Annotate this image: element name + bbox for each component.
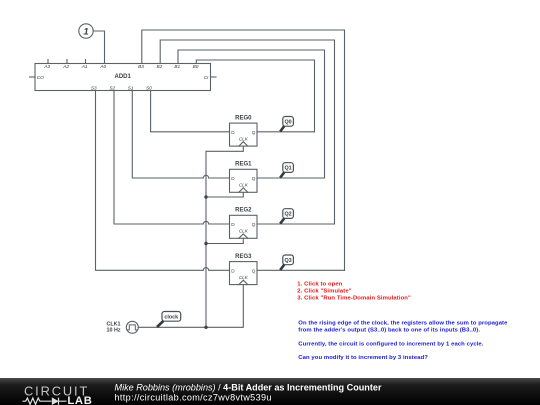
wire Q3 output [257,269,345,271]
svg-text:ADD1: ADD1 [115,74,132,80]
svg-text:10 Hz: 10 Hz [106,328,120,334]
flag Q1 [280,163,293,178]
wire clock vertical bus [205,151,207,327]
svg-text:REG2: REG2 [235,208,252,214]
wire S1 to REG1 D with hop [132,91,229,179]
svg-text:A2: A2 [62,64,69,69]
svg-text:Q2: Q2 [284,212,291,218]
svg-text:D: D [231,176,235,181]
svg-text:3. Click "Run Time-Domain Simu: 3. Click "Run Time-Domain Simulation" [297,295,411,301]
svg-text:Currently, the circuit is conf: Currently, the circuit is configured to … [298,342,483,348]
svg-text:D: D [231,222,235,227]
svg-text:On the rising edge of the cloc: On the rising edge of the clock, the reg… [298,321,508,327]
source V1 value 1 [79,24,93,38]
label REG0 [231,116,255,142]
flag Q2 [280,209,293,224]
svg-text:LAB: LAB [67,395,92,405]
label ADD1 pins [37,64,209,90]
junction node REG1 clk [204,195,207,198]
svg-text:Q0: Q0 [284,119,291,125]
svg-text:S0: S0 [146,85,152,90]
wire S0 to REG0 D [151,91,230,132]
adder ADD1 [30,60,217,91]
svg-text:S2: S2 [109,85,115,90]
register REG0 [230,123,258,146]
label REG3 [231,254,255,280]
flag Q0 [280,117,293,132]
wire B2 net from Q2 feedback [160,40,334,224]
wire REG0 CLK branch [206,146,243,151]
svg-text:Q1: Q1 [284,166,291,172]
junction node REG2 clk [204,242,207,245]
wire B1 net from Q1 feedback [178,50,325,178]
annotation red instructions [297,281,411,301]
wire REG1 CLK branch [206,192,243,197]
svg-text:A0: A0 [99,64,106,69]
svg-text:B0: B0 [193,64,199,69]
svg-text:S3: S3 [91,85,97,90]
wire REG2 CLK branch [206,238,243,243]
flag clock [157,312,181,328]
svg-text:CO: CO [37,75,44,80]
label REG1 [231,162,255,188]
label REG2 [231,208,255,234]
svg-text:A3: A3 [43,64,50,69]
svg-text:Q3: Q3 [284,258,291,264]
svg-text:Can you modify it to increment: Can you modify it to increment by 3 inst… [298,355,428,361]
svg-text:CLK: CLK [239,183,249,188]
svg-text:B1: B1 [174,64,180,69]
svg-text:1: 1 [83,27,88,38]
svg-text:D: D [231,268,235,273]
svg-text:http://circuitlab.com/cz7wv8vt: http://circuitlab.com/cz7wv8vtw539u [115,392,272,402]
wire B3 net from Q3 feedback [142,30,345,270]
svg-text:REG1: REG1 [235,162,252,168]
wire S3 to REG3 D with hop [96,91,230,271]
svg-text:B3: B3 [138,64,144,69]
clock source CLK1 [126,321,138,333]
svg-text:1. Click to open: 1. Click to open [297,281,342,287]
wire Q1 output [257,177,325,179]
svg-text:CLK: CLK [239,275,249,280]
svg-text:CLK1: CLK1 [106,321,120,327]
register REG2 [230,215,258,238]
svg-text:REG3: REG3 [235,254,252,260]
svg-text:Q: Q [252,222,256,227]
svg-text:REG0: REG0 [235,116,252,122]
svg-text:clock: clock [164,314,178,320]
svg-text:2. Click "Simulate": 2. Click "Simulate" [297,288,351,294]
svg-text:from the adder's output (S3..0: from the adder's output (S3..0) back to … [298,328,480,334]
svg-text:A1: A1 [81,64,88,69]
svg-text:Q: Q [252,130,256,135]
wire Q2 output [257,223,335,225]
logo CircuitLab [23,383,93,405]
svg-text:CI: CI [204,75,209,80]
svg-text:Q: Q [252,176,256,181]
svg-text:Mike Robbins (mrobbins) / 4-Bi: Mike Robbins (mrobbins) / 4-Bit Adder as… [115,383,382,393]
wire S2 to REG2 D with hop [114,91,230,225]
svg-text:D: D [231,130,235,135]
footer bar [0,378,540,405]
annotation blue description [298,321,508,361]
wire B0 net from Q0 feedback [196,60,314,132]
svg-text:B2: B2 [157,64,163,69]
register REG3 [230,262,258,285]
wire source to A0 [93,31,104,64]
flag Q3 [280,255,293,270]
svg-text:CLK: CLK [239,229,249,234]
svg-text:S1: S1 [128,85,134,90]
svg-text:Q: Q [252,268,256,273]
wire clock horizontal from CLK1 to REG3 CLK [138,285,243,328]
junction node clock wire [204,326,207,329]
register REG1 [230,169,258,192]
wire Q0 output [257,131,315,133]
svg-text:CLK: CLK [239,136,249,141]
